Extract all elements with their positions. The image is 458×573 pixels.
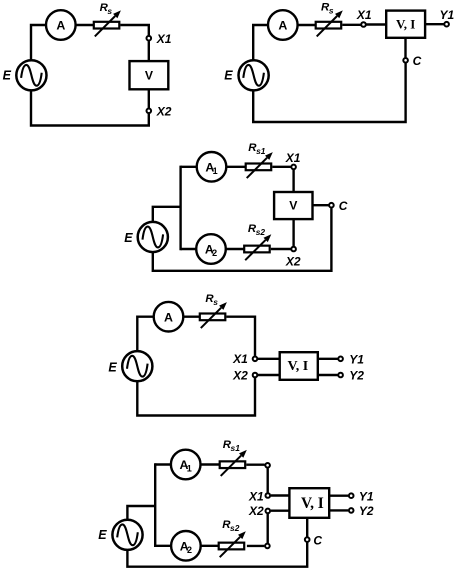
svg-text:X2: X2 (248, 504, 264, 518)
wire voltmeter to X2 (circuit 3) (292, 220, 294, 246)
terminal Y2 (circuit 4) (338, 373, 343, 378)
wire X2 to V,I box (circuit 4) (258, 374, 280, 376)
terminal X1 (circuit 3) (291, 165, 296, 170)
svg-text:V, I: V, I (287, 359, 308, 374)
wire terminal to X1 (circuit 5) (267, 468, 269, 492)
wire V,I to Y2 (circuit 5) (330, 509, 348, 511)
ammeter A1 (circuit 5) (171, 450, 201, 480)
ammeter A2 (circuit 3) (196, 234, 226, 264)
wire circuit1 top-left segment (31, 25, 46, 60)
svg-text:X2: X2 (285, 255, 301, 269)
terminal X2 (circuit 4) (253, 373, 258, 378)
svg-text:E: E (224, 69, 233, 83)
resistor Rs1 (circuit 5) (220, 450, 247, 476)
wire junction to A1 (circuit 3) (181, 166, 197, 168)
svg-text:X1: X1 (248, 489, 264, 503)
wire X2 to source bottom (circuit 1) (31, 91, 149, 126)
wire branch vertical (circuit 3) (179, 166, 181, 251)
svg-text:1: 1 (187, 464, 192, 474)
svg-text:2: 2 (187, 545, 192, 555)
wire V,I to Y1 (circuit 5) (330, 495, 348, 497)
resistor Rs (circuit 2) (316, 10, 343, 36)
terminal C (circuit 5) (305, 537, 310, 542)
terminal Y2 (circuit 5) (349, 508, 354, 513)
terminal after Rs1 (circuit 5) (265, 463, 270, 468)
svg-text:C: C (313, 533, 322, 547)
wire source to A (circuit 4) (137, 317, 154, 352)
wire Rs1 to terminal (circuit 5) (246, 464, 264, 466)
terminal X1 (circuit 1) (147, 36, 152, 41)
terminal after Rs2 (circuit 5) (265, 544, 270, 549)
wire V,I to Y2 (circuit 4) (319, 374, 338, 376)
measuring device V, I (circuit 4) (280, 352, 318, 380)
AC source E (circuit 5) (112, 520, 142, 550)
wire source to A (circuit 2) (253, 25, 268, 60)
svg-text:E: E (108, 361, 117, 375)
wire V,I to C (circuit 5) (306, 519, 308, 537)
wire A1 to Rs1 (circuit 5) (201, 463, 220, 465)
svg-text:X1: X1 (285, 151, 301, 165)
wire C to source bottom (circuit 3) (153, 208, 332, 271)
ammeter A (circuit 4) (154, 302, 184, 332)
wire X2 down to Rs2 terminal (circuit 5) (267, 514, 269, 543)
terminal X1 (circuit 5) (266, 493, 271, 498)
wire X2 to V,I box (circuit 5) (271, 510, 290, 512)
svg-text:2: 2 (212, 248, 217, 258)
svg-text:X2: X2 (232, 368, 248, 382)
svg-text:X1: X1 (356, 8, 372, 22)
voltmeter V (circuit 3) (274, 192, 312, 219)
wire V,I to Y1 (circuit 2) (426, 23, 444, 25)
wire Rs2 to terminal (circuit 5) (247, 545, 265, 547)
svg-text:V, I: V, I (396, 17, 415, 32)
resistor Rs1 (circuit 3) (246, 152, 273, 178)
svg-text:A: A (164, 310, 173, 324)
wire source to branch junction (circuit 3) (153, 207, 180, 222)
svg-text:Y2: Y2 (349, 369, 364, 383)
wire X1 to V,I box (circuit 2) (367, 23, 387, 25)
wire A to Rs (circuit 4) (183, 316, 200, 318)
svg-text:V: V (289, 199, 298, 213)
svg-text:V, I: V, I (301, 495, 324, 512)
svg-text:C: C (339, 199, 348, 213)
wire A1 to Rs1 (circuit 3) (226, 166, 245, 168)
wire V,I to C (circuit 2) (404, 39, 406, 58)
svg-text:E: E (124, 231, 133, 245)
wire branch vertical (circuit 5) (154, 463, 156, 547)
svg-text:X1: X1 (156, 32, 172, 46)
terminal Y1 (circuit 4) (338, 357, 343, 362)
resistor Rs (circuit 1) (94, 10, 121, 36)
wire voltmeter to C (circuit 3) (313, 204, 328, 206)
ammeter A1 (circuit 3) (197, 152, 227, 182)
wire Rs2 to X2 (circuit 3) (271, 248, 291, 250)
terminal X1 (circuit 4) (253, 357, 258, 362)
measuring device V, I (circuit 5) (289, 488, 329, 518)
wire voltmeter to X2 (circuit 1) (148, 90, 150, 108)
voltmeter V (circuit 1) (130, 61, 169, 89)
resistor Rs2 (circuit 3) (244, 234, 271, 260)
wire junction to A2 (circuit 5) (155, 545, 171, 547)
ammeter A2 (circuit 5) (171, 531, 201, 561)
resistor Rs (circuit 4) (200, 302, 227, 328)
wire A to Rs (circuit 1) (76, 24, 94, 26)
svg-text:X1: X1 (232, 352, 248, 366)
wire Rs to X1 (circuit 4) (226, 317, 255, 356)
svg-text:A: A (56, 19, 65, 33)
ammeter A (circuit 1) (46, 10, 76, 40)
wire Rs1 to X1 (circuit 3) (272, 166, 290, 168)
svg-text:E: E (98, 528, 107, 542)
svg-text:X2: X2 (156, 105, 172, 119)
wire junction to A2 (circuit 3) (181, 248, 197, 250)
terminal C (circuit 2) (403, 58, 408, 63)
wire X1 to V,I box (circuit 5) (271, 494, 290, 496)
AC source E (circuit 1) (16, 60, 46, 90)
wire A2 to Rs2 (circuit 3) (226, 248, 244, 250)
wire Rs to X1 (circuit 2) (342, 24, 360, 26)
svg-text:V: V (145, 68, 154, 82)
resistor Rs2 (circuit 5) (219, 531, 246, 557)
svg-text:A: A (278, 19, 287, 33)
wire Rs to X1 (circuit 1) (120, 25, 148, 35)
svg-text:Y2: Y2 (359, 504, 374, 518)
svg-text:C: C (413, 54, 422, 68)
terminal X1 (circuit 2) (361, 22, 366, 27)
wire C to source bottom (circuit 5) (127, 543, 307, 567)
wire X1 to voltmeter (circuit 1) (148, 41, 150, 60)
wire A2 to Rs2 (circuit 5) (201, 545, 219, 547)
wire X1 to V,I box (circuit 4) (258, 358, 280, 360)
svg-text:Y1: Y1 (349, 352, 364, 366)
ammeter A (circuit 2) (268, 10, 298, 40)
wire X1 to voltmeter (circuit 3) (292, 170, 294, 192)
terminal Y1 (circuit 2) (444, 22, 449, 27)
svg-text:Y1: Y1 (359, 489, 374, 503)
AC source E (circuit 3) (138, 222, 168, 252)
wire V,I to Y1 (circuit 4) (319, 358, 338, 360)
wire A to Rs (circuit 2) (298, 24, 316, 26)
svg-text:Y1: Y1 (440, 8, 455, 22)
terminal C (circuit 3) (329, 203, 334, 208)
AC source E (circuit 2) (239, 60, 269, 90)
wire X2 to source bottom (circuit 4) (137, 378, 255, 416)
AC source E (circuit 4) (122, 351, 152, 381)
terminal X2 (circuit 1) (147, 109, 152, 114)
wire source to branch junction (circuit 5) (127, 506, 154, 520)
measuring device V, I (circuit 2) (386, 11, 425, 38)
terminal Y1 (circuit 5) (349, 493, 354, 498)
svg-text:1: 1 (213, 166, 218, 176)
svg-text:E: E (3, 69, 12, 83)
wire junction to A1 (circuit 5) (155, 463, 171, 465)
terminal X2 (circuit 3) (291, 247, 296, 252)
terminal X2 (circuit 5) (266, 509, 271, 514)
wire C to source (circuit 2) (253, 63, 405, 122)
